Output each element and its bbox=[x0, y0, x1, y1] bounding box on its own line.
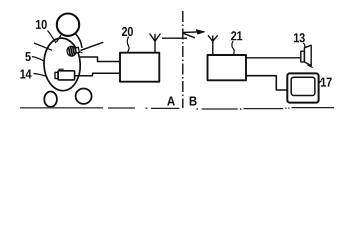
label 10 bbox=[36, 20, 47, 29]
receiver box 21 bbox=[208, 55, 247, 80]
speaker 13 cone bbox=[304, 45, 311, 65]
wire from person top to box 20 bbox=[80, 57, 120, 62]
body-worn unit 14 bbox=[58, 71, 75, 80]
right foot bbox=[76, 89, 92, 104]
person left arm line bbox=[34, 43, 52, 50]
leader line for 20 bbox=[127, 37, 129, 53]
microphone cord to body bbox=[79, 52, 83, 54]
partition centerline A|B bbox=[182, 11, 184, 108]
RF transmission arrow zigzag diagonal bbox=[183, 33, 195, 38]
label 20 bbox=[122, 27, 133, 36]
RF transmission arrow lower shaft bbox=[162, 37, 187, 39]
person head bbox=[57, 14, 79, 36]
leader line for 13 bbox=[303, 43, 305, 48]
person neck left line bbox=[57, 35, 62, 42]
label 13 bbox=[294, 33, 305, 42]
label 14 bbox=[20, 70, 31, 79]
monitor 17 screen bbox=[291, 77, 315, 95]
antenna of box 21 bbox=[208, 35, 218, 55]
transmitter box 20 bbox=[120, 53, 159, 82]
person right shoulder curve bbox=[76, 34, 83, 48]
label 17 bbox=[321, 78, 332, 87]
label B bbox=[190, 97, 197, 106]
person right arm toward box 20 bbox=[81, 42, 104, 50]
label 21 bbox=[231, 31, 242, 40]
person body ellipse (garment 5) bbox=[43, 37, 82, 91]
wire box 21 to monitor 17 bbox=[246, 76, 287, 90]
leader line for 5 bbox=[32, 57, 45, 62]
label A bbox=[167, 97, 175, 106]
leader line for 21 bbox=[232, 41, 234, 55]
left foot bbox=[44, 92, 57, 107]
label 5 bbox=[25, 52, 30, 61]
leader line for 10 bbox=[48, 31, 57, 44]
ground line under person bbox=[20, 107, 103, 109]
leader line for 17 bbox=[319, 81, 322, 84]
unit 14 left cap bbox=[55, 72, 58, 78]
RF transmission arrow upper shaft bbox=[183, 31, 197, 33]
microphone device (label 10) bbox=[66, 45, 79, 57]
leader line for 14 bbox=[34, 74, 46, 77]
speaker 13 driver bbox=[301, 51, 305, 62]
wire box 21 to speaker 13 bbox=[246, 57, 301, 59]
antenna of box 20 bbox=[150, 34, 161, 53]
unit 14 top bump bbox=[59, 69, 63, 71]
speaker 13 foot stroke bbox=[308, 65, 313, 68]
RF transmission arrowhead bbox=[196, 30, 205, 35]
wire from unit 14 to box 20 bbox=[75, 73, 120, 76]
floor dash-dot line segments bbox=[108, 108, 334, 109]
monitor 17 outer case bbox=[287, 73, 318, 102]
